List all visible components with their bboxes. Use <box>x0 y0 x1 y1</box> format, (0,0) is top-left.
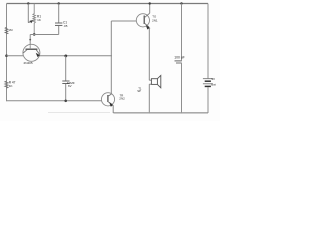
wire: long vertical (Q2 base / Q3 collector) <box>110 21 112 94</box>
svg-text:2N405: 2N405 <box>24 61 33 65</box>
label battery value <box>211 77 216 87</box>
node: junction dot top rail at C1 branch <box>58 2 60 4</box>
wire: base jog horizontal to Q1 <box>30 34 59 36</box>
wire: Q2 base wire horizontal <box>111 20 136 22</box>
capacitor C2 <box>62 81 69 84</box>
wire: Q2 collector lead up to rail <box>149 4 151 14</box>
label C1 value <box>63 21 68 28</box>
wire: speaker bottom lead to ground rail <box>148 84 150 113</box>
wire: C1 bottom lead <box>58 26 60 35</box>
svg-text:9V: 9V <box>211 77 215 81</box>
transistor Q1 (circle, base bar, collector, emitter w/ arrow) <box>23 44 40 61</box>
svg-text:2N1: 2N1 <box>152 18 158 22</box>
speaker SP1 (coil box and horn) <box>149 75 161 87</box>
wire: Q1 base lead vertical <box>29 35 31 46</box>
wire: Q3 emitter lead down to ground rail <box>112 105 114 113</box>
svg-text:1K: 1K <box>9 84 13 88</box>
wire: Q1 emitter wire to the right <box>39 55 112 57</box>
wire: right vertical rail (top rail down to battery) <box>207 4 209 79</box>
wire: left vertical rail <box>6 4 8 102</box>
label Q1 part number <box>24 61 33 65</box>
svg-text:1K: 1K <box>37 18 42 22</box>
resistor R3 (upper left rail) <box>5 27 8 34</box>
node: junction dot C2 to ground wire <box>64 100 67 103</box>
battery B1 <box>203 79 213 87</box>
svg-text:100 uF: 100 uF <box>174 55 185 59</box>
wire: bottom ground wire (left, to Q3 base) <box>7 100 102 102</box>
transistor Q2 (circle, base bar, collector, emitter w/ arrow) <box>136 13 150 29</box>
svg-text:1M: 1M <box>8 28 13 32</box>
wire: C3 top lead <box>181 4 183 61</box>
node: junction dot top rail at Q2 collector <box>149 2 151 4</box>
node: junction dot bottom rail at speaker <box>149 112 150 113</box>
wire: C1 top lead <box>58 4 60 23</box>
label Q2 part number <box>152 14 158 22</box>
wire: right vertical rail (battery to bottom rail) <box>207 87 209 113</box>
label R2 value <box>9 80 16 87</box>
wire: bottom ground rail (right dark part) <box>113 112 208 114</box>
node: small dot on Q1 base lead <box>29 39 31 41</box>
svg-text:6V: 6V <box>68 84 72 88</box>
wire: Q2 emitter lead down to speaker <box>148 28 151 80</box>
capacitor C1 <box>55 23 62 25</box>
svg-text:2N2: 2N2 <box>119 97 125 101</box>
transistor Q3 (circle, base bar, collector, emitter w/ arrow) <box>101 93 114 107</box>
wire: wiper branch vertical from top rail <box>27 4 29 23</box>
wire: C2 bottom lead <box>65 84 67 101</box>
svg-text:SP: SP <box>137 89 141 93</box>
label Q3 part number <box>119 93 125 100</box>
label C3 value <box>174 55 185 59</box>
node: junction dot R1 lead / jog wire <box>33 33 36 36</box>
label speaker <box>137 86 142 93</box>
node: junction dot left rail / Q1 collector wire <box>5 54 8 57</box>
resistor R1 (potentiometer body) <box>33 4 36 35</box>
wire: C2 top lead <box>65 56 67 81</box>
capacitor C3 <box>175 61 182 63</box>
svg-text:Bat: Bat <box>211 83 216 87</box>
wire: C3 bottom lead <box>181 63 183 113</box>
wire: Q1 collector wire to left rail <box>7 55 24 57</box>
resistor R2 (on left rail) <box>5 81 8 88</box>
node: junction dot top rail at R1 wiper branch <box>27 2 29 4</box>
label R1 value <box>37 15 42 23</box>
label C2 value <box>67 81 75 88</box>
svg-text:.05: .05 <box>63 24 68 28</box>
wire: top supply rail <box>7 3 209 5</box>
node: junction dot bottom rail at C3 <box>181 112 182 113</box>
node: junction dot at C2 tap <box>64 55 67 58</box>
label R3 value <box>8 28 13 32</box>
wire: faint bottom ghost segment <box>48 111 110 113</box>
node: junction dot top rail at C3 <box>180 2 182 4</box>
wire: wiper branch horizontal into R1 <box>28 20 33 23</box>
